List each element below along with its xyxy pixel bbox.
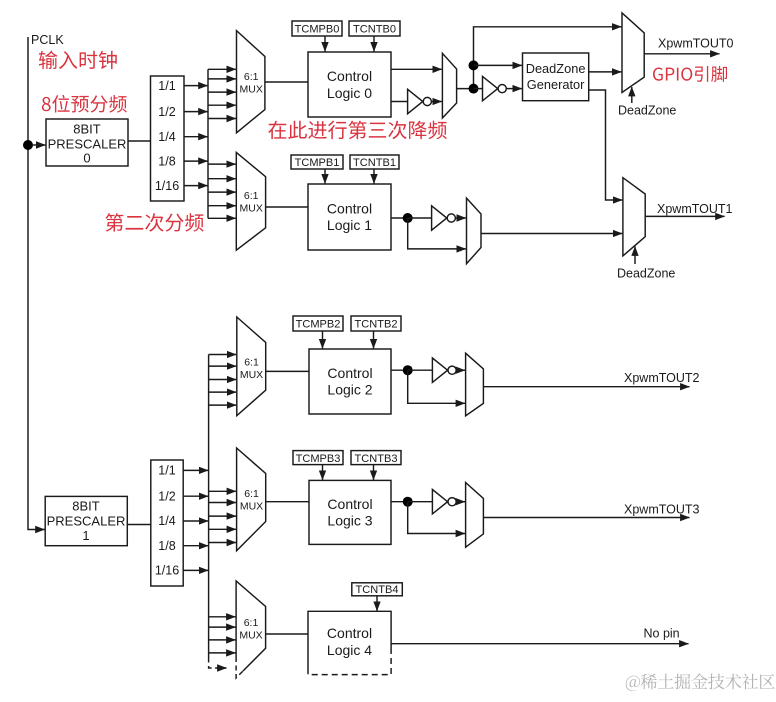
svg-text:TCNTB4: TCNTB4: [356, 584, 399, 596]
wire MUX0 to Control Logic 0: [265, 81, 308, 83]
wire bus to MUX3 input 4: [209, 528, 236, 530]
wire CL1 output to dot: [391, 217, 408, 219]
register TCNTB4: [352, 583, 403, 596]
wire DZ out A to XpwmTOUT0 mux: [589, 71, 622, 73]
wire CL2 output to dot: [391, 369, 408, 371]
wire bus to MUX1 input 1: [208, 163, 236, 165]
svg-text:PRESCALER: PRESCALER: [48, 137, 127, 152]
svg-text:1/8: 1/8: [158, 154, 175, 168]
block U8 Control Logic 4 (dashed bottom): [308, 611, 391, 671]
divider D2 (1/1-1/16): [151, 460, 183, 586]
wire dot to inverter G4: [408, 501, 433, 503]
svg-text:TCMPB1: TCMPB1: [295, 157, 340, 169]
wire inverter G3 to output mux: [457, 369, 465, 371]
wire prescaler 0 to divider 1: [128, 140, 151, 142]
junction dot timer3: [403, 497, 413, 507]
svg-text:Logic 3: Logic 3: [327, 513, 372, 529]
mux M3 6:1 MUX timer3: [237, 448, 266, 551]
wire inverter G2 to output mux: [456, 217, 466, 219]
svg-text:MUX: MUX: [240, 501, 263, 513]
svg-text:Logic 0: Logic 0: [327, 85, 372, 101]
wire divider2 tap 2 to bus: [183, 495, 208, 497]
wire PCLK to prescaler 0: [32, 144, 45, 146]
mux M1b output select timer1: [467, 198, 482, 264]
svg-text:TCMPB0: TCMPB0: [295, 24, 340, 36]
svg-text:1/1: 1/1: [158, 464, 175, 478]
svg-text:DeadZone: DeadZone: [526, 61, 586, 76]
junction dot timer1: [403, 213, 413, 223]
register TCNTB3: [351, 451, 401, 465]
svg-text:XpwmTOUT1: XpwmTOUT1: [657, 202, 733, 216]
wire junction vertical + feedthrough to XpwmTOUT0 mux: [474, 27, 622, 89]
wire mux M1b to XpwmTOUT1 mux: [481, 233, 622, 235]
svg-text:1/16: 1/16: [155, 179, 179, 193]
wire MUX3 to Control Logic 3: [266, 501, 309, 503]
mux M4 6:1 MUX timer4 (partially dashed): [236, 581, 266, 671]
register TCMPB2: [293, 316, 343, 331]
wire divider1 tap 5 to bus: [184, 185, 208, 187]
svg-text:0: 0: [83, 151, 90, 166]
wire bus to MUX1 input 2: [208, 178, 236, 180]
wire divider2 tap 3 to bus: [183, 520, 208, 522]
wire bus dashed TCLK input to MUX4: [209, 658, 227, 669]
label red 输入时钟 (input clock): [39, 51, 117, 69]
watermark 稀土掘金: [626, 673, 775, 690]
inverter G0 timer0: [408, 89, 423, 113]
svg-text:MUX: MUX: [240, 203, 263, 215]
wire bus to MUX0 input 5: [208, 118, 236, 120]
block U2 Control Logic 0: [308, 52, 391, 117]
wire divider1 tap 3 to bus: [184, 136, 208, 138]
inverter G3 timer2: [432, 358, 447, 382]
wire bus to MUX2 input 3: [209, 379, 237, 381]
wire bus to MUX4 input 2: [209, 626, 236, 628]
block U4 Control Logic 1: [308, 184, 391, 250]
wire PCLK vertical rail: [28, 37, 45, 530]
mux M0 6:1 MUX timer0: [237, 31, 265, 133]
svg-text:Control: Control: [327, 200, 372, 216]
svg-text:1/16: 1/16: [155, 564, 179, 578]
wire XpwmTOUT2 output: [483, 386, 689, 388]
wire divider2 tap 4 to bus: [183, 545, 208, 547]
svg-text:1/4: 1/4: [158, 514, 175, 528]
mux M0b output select timer0: [442, 53, 456, 118]
wire dot A to DeadZone generator: [474, 64, 522, 66]
svg-text:TCMPB2: TCMPB2: [296, 319, 341, 331]
svg-text:1/8: 1/8: [158, 539, 175, 553]
wire TCMPB3 down: [322, 465, 324, 480]
svg-text:1/4: 1/4: [158, 130, 175, 144]
wire clock bus B (bottom): [208, 355, 210, 658]
svg-text:Logic 2: Logic 2: [327, 382, 372, 398]
svg-text:TCNTB3: TCNTB3: [355, 453, 398, 465]
wire TCMPB0 down: [324, 36, 326, 51]
svg-text:6:1: 6:1: [244, 488, 259, 500]
wire bus to MUX3 input 3: [209, 515, 236, 517]
wire bus to MUX0 input 3: [208, 91, 236, 93]
wire CL3 output to dot: [391, 501, 408, 503]
wire inverter G0 to output mux: [432, 101, 442, 103]
wire divider2 tap 5 to bus: [183, 569, 208, 571]
wire XpwmTOUT0 output: [644, 53, 719, 55]
wire MUX1 to Control Logic 1: [266, 206, 308, 208]
wire TCNTB2 down: [373, 331, 375, 348]
wire DeadZone select arrow 1: [634, 247, 636, 265]
wire TCMPB1 down: [324, 169, 326, 183]
wire CL0 out A to output mux: [391, 68, 442, 70]
wire bus to MUX1 input 3: [208, 191, 236, 193]
svg-text:Control: Control: [327, 625, 372, 641]
wire inverter G1 to DeadZone generator: [507, 88, 522, 90]
junction dot timer2: [403, 365, 413, 375]
svg-text:6:1: 6:1: [244, 617, 259, 629]
inverter G4 timer3: [432, 490, 447, 514]
svg-text:MUX: MUX: [240, 84, 263, 96]
wire bus to MUX0 input 2: [208, 78, 236, 80]
prescaler U7 8BIT PRESCALER 1: [45, 496, 127, 545]
junction dot A timer0: [469, 60, 479, 70]
svg-text:6:1: 6:1: [244, 71, 259, 83]
mux M1c XpwmTOUT1 output: [623, 178, 645, 256]
wire dot to inverter G3: [408, 369, 433, 371]
wire TCNTB0 down: [373, 36, 375, 51]
svg-text:1/1: 1/1: [158, 79, 175, 93]
wire dot branch down timer2: [408, 370, 465, 403]
svg-text:6:1: 6:1: [244, 190, 259, 202]
svg-text:Logic 1: Logic 1: [327, 217, 372, 233]
svg-text:DeadZone: DeadZone: [618, 104, 676, 118]
inverter G2 timer1: [432, 206, 447, 230]
label red 第二次分频: [105, 213, 203, 232]
block U3 DeadZone Generator: [523, 53, 589, 101]
label red 8位预分频 (8-bit prescaler): [42, 95, 127, 113]
inverter G1 deadzone path: [483, 76, 498, 100]
wire bus to MUX2 input 4: [209, 391, 237, 393]
svg-text:XpwmTOUT3: XpwmTOUT3: [624, 503, 700, 517]
junction dot B timer0: [469, 84, 479, 94]
wire bus to MUX2 input 5: [209, 404, 237, 406]
register TCMPB0: [292, 21, 342, 36]
mux M1 6:1 MUX timer1: [236, 152, 265, 250]
svg-text:8BIT: 8BIT: [72, 499, 100, 514]
wire bus to MUX4 input 3: [209, 639, 236, 641]
wire XpwmTOUT1 output: [645, 215, 724, 217]
wire dot branch down timer3: [408, 502, 465, 534]
prescaler U1 8BIT PRESCALER 0: [46, 119, 128, 166]
svg-text:TCNTB2: TCNTB2: [355, 319, 398, 331]
svg-text:Logic 4: Logic 4: [327, 642, 372, 658]
svg-text:MUX: MUX: [240, 369, 263, 381]
wire CL0 out B to inverter: [391, 101, 408, 103]
wire MUX4 to Control Logic 4: [266, 633, 308, 635]
label red 在此进行第三次降频: [268, 121, 447, 140]
wire clock bus A (top): [207, 69, 209, 218]
block U5 Control Logic 2: [309, 349, 391, 414]
wire divider1 tap 2 to bus: [184, 111, 208, 113]
svg-text:TCNTB0: TCNTB0: [353, 24, 396, 36]
svg-text:XpwmTOUT0: XpwmTOUT0: [658, 36, 734, 50]
svg-text:Control: Control: [327, 496, 372, 512]
wire TCNTB1 down: [373, 169, 375, 183]
mux M2 6:1 MUX timer2: [237, 317, 266, 416]
register TCNTB2: [351, 316, 401, 331]
wire MUX2 to Control Logic 2: [266, 370, 309, 372]
register TCMPB3: [293, 451, 343, 465]
wire dot B to inverter G1: [474, 88, 483, 90]
wire bus to MUX1 input 5: [208, 217, 236, 219]
wire bus to MUX4 input 4: [209, 652, 236, 654]
wire bus to MUX2 input 1: [209, 354, 237, 356]
svg-text:No pin: No pin: [644, 627, 680, 641]
wire bus to MUX1 input 4: [208, 205, 236, 207]
svg-text:TCNTB1: TCNTB1: [353, 157, 396, 169]
wire dot branch down to output mux: [408, 218, 466, 249]
wire bus to MUX2 input 2: [209, 365, 237, 367]
wire divider2 tap 1 to bus: [183, 469, 208, 471]
wire bus to MUX3 input 2: [209, 502, 236, 504]
wire bus to MUX0 input 1: [208, 68, 236, 70]
wire mux M0b to junction: [457, 88, 474, 90]
svg-text:Control: Control: [327, 68, 372, 84]
wire bus to MUX3 input 5: [209, 542, 236, 544]
svg-text:8BIT: 8BIT: [73, 122, 101, 137]
mux M2b output select timer2: [466, 353, 484, 416]
register TCNTB0: [349, 21, 400, 36]
divider D1 (1/1-1/16): [151, 76, 185, 201]
wire prescaler 1 to divider 2: [127, 524, 151, 526]
svg-text:1/2: 1/2: [158, 105, 175, 119]
svg-text:XpwmTOUT2: XpwmTOUT2: [624, 371, 700, 385]
wire bus to MUX4 input 1: [209, 616, 236, 618]
wire bus to MUX3 input 1: [209, 490, 236, 492]
block U6 Control Logic 3: [309, 480, 391, 544]
register TCMPB1: [291, 155, 343, 169]
wire inverter G4 to output mux: [457, 501, 465, 503]
register TCNTB1: [350, 155, 399, 169]
svg-text:Generator: Generator: [527, 77, 585, 92]
svg-text:1: 1: [82, 528, 89, 543]
wire divider1 tap 1 to bus: [184, 85, 208, 87]
svg-text:MUX: MUX: [239, 630, 262, 642]
svg-text:Control: Control: [327, 365, 372, 381]
wire No pin output: [391, 643, 688, 645]
svg-text:PRESCALER: PRESCALER: [47, 514, 126, 529]
mux M3b output select timer3: [466, 483, 484, 548]
junction dot on PCLK at prescaler 0: [23, 140, 33, 150]
wire bus to MUX0 input 4: [208, 104, 236, 106]
label red GPIO引脚: [653, 66, 727, 82]
svg-text:PCLK: PCLK: [31, 33, 64, 47]
wire DeadZone select arrow 0: [631, 87, 633, 103]
svg-text:DeadZone: DeadZone: [617, 267, 675, 281]
wire TCNTB3 down: [373, 465, 375, 480]
svg-text:TCMPB3: TCMPB3: [296, 453, 341, 465]
wire XpwmTOUT3 output: [483, 517, 689, 519]
wire divider1 tap 4 to bus: [184, 160, 208, 162]
svg-text:1/2: 1/2: [158, 489, 175, 503]
mux M0c XpwmTOUT0 output: [622, 13, 644, 93]
wire TCMPB2 down: [322, 331, 324, 348]
wire TCNTB4 down: [376, 596, 378, 611]
svg-text:6:1: 6:1: [244, 357, 259, 369]
wire DZ out B to XpwmTOUT1 mux: [589, 90, 623, 200]
wire dot to inverter G2: [408, 217, 432, 219]
